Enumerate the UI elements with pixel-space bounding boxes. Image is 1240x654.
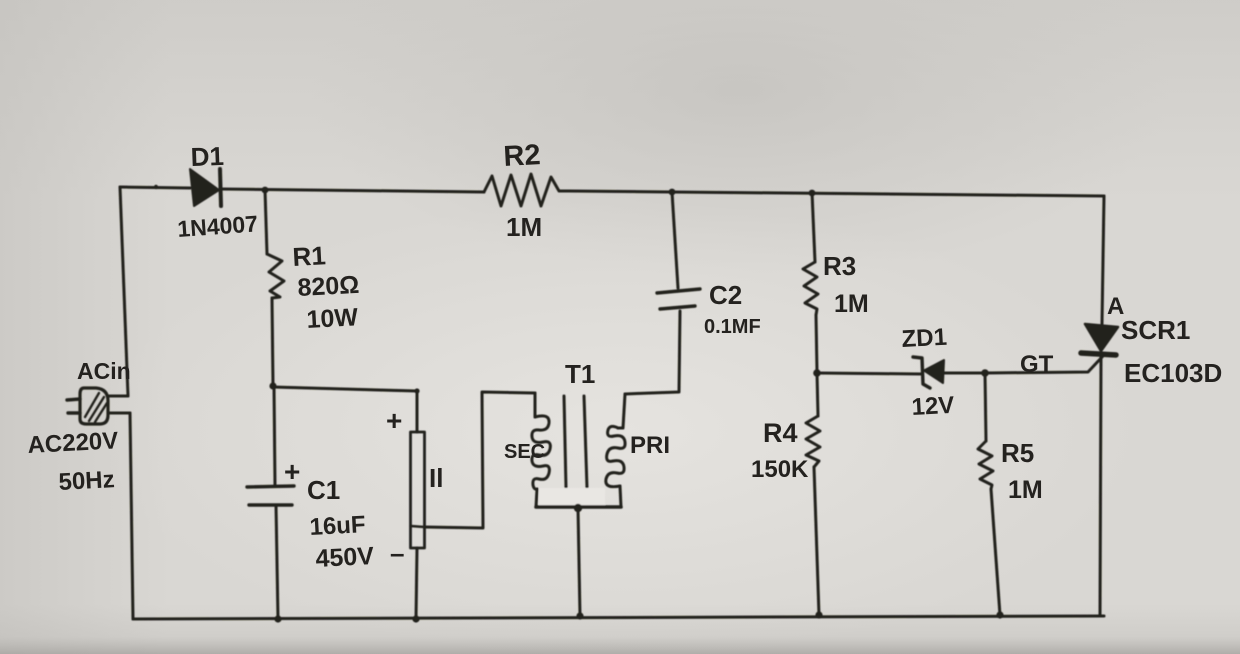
transformer T1 center tap	[574, 504, 582, 616]
label C1	[307, 475, 340, 505]
svg-text:Il: Il	[429, 463, 443, 493]
svg-text:R3: R3	[823, 251, 856, 281]
svg-text:R2: R2	[503, 139, 542, 173]
resistor R2	[484, 174, 569, 206]
wire D1 to R2	[221, 189, 484, 192]
transformer T1 core	[564, 396, 587, 488]
svg-text:ACin: ACin	[77, 358, 131, 384]
label SEC	[504, 441, 545, 463]
resistor R4	[806, 373, 820, 615]
capacitor C2	[657, 192, 700, 309]
svg-text:T1: T1	[565, 359, 595, 389]
label 820ohm	[297, 271, 360, 302]
node junction at R3 top	[809, 190, 816, 197]
igniter Z1	[411, 391, 425, 619]
label plus C1	[284, 456, 300, 487]
label 1M R3	[834, 290, 869, 318]
node junction Z1 bottom	[412, 615, 419, 622]
thyristor SCR1	[1081, 324, 1118, 355]
diode D1	[190, 169, 221, 206]
svg-text:1M: 1M	[1008, 476, 1043, 504]
svg-text:12V: 12V	[911, 392, 955, 421]
svg-text:R1: R1	[292, 240, 327, 272]
resistor R1	[265, 190, 284, 385]
svg-text:1M: 1M	[506, 212, 542, 242]
node junction at C2 top	[669, 189, 676, 196]
label R2	[503, 139, 542, 173]
svg-text:SEC: SEC	[504, 441, 545, 463]
node junction C1 bottom	[274, 615, 281, 622]
wire right vertical anode	[1102, 196, 1104, 324]
label 1M R2	[506, 212, 542, 242]
wire left vertical upper	[120, 187, 128, 396]
resistor R5	[978, 373, 1000, 615]
label 0.1MF	[704, 316, 761, 338]
svg-text:50Hz: 50Hz	[58, 466, 115, 496]
wire right vertical cathode	[1100, 356, 1101, 616]
svg-text:820Ω: 820Ω	[297, 271, 360, 302]
svg-text:ZD1: ZD1	[901, 324, 948, 353]
label R5	[1001, 438, 1034, 468]
label T1	[565, 359, 595, 389]
label EC103D	[1124, 358, 1222, 388]
wire node to ZI top	[273, 387, 417, 391]
svg-text:C1: C1	[307, 475, 340, 505]
wire gate GT	[985, 356, 1103, 373]
label SCR1	[1121, 315, 1190, 345]
node junction T1 tap bottom	[576, 612, 583, 619]
label R4	[763, 418, 798, 448]
svg-text:150K: 150K	[751, 456, 809, 483]
svg-text:0.1MF: 0.1MF	[704, 316, 761, 338]
AC plug ACin	[67, 388, 108, 424]
capacitor C1	[247, 386, 294, 619]
label ACin	[77, 358, 131, 384]
transformer T1 bottom bar	[536, 505, 621, 509]
label 450V	[315, 542, 375, 573]
label 12V	[911, 392, 955, 421]
wire plug top stub	[108, 395, 128, 398]
label ZD1	[901, 324, 948, 353]
zener diode ZD1	[913, 357, 944, 388]
node junction R4 bottom	[815, 611, 822, 618]
svg-text:450V: 450V	[315, 542, 375, 573]
transformer T1 secondary winding SEC	[532, 393, 550, 507]
label 16uF	[309, 511, 366, 541]
wire PRI top to C2	[625, 311, 680, 394]
label 150K	[751, 456, 809, 483]
svg-text:C2: C2	[709, 280, 742, 310]
svg-text:–: –	[390, 538, 404, 568]
label 1N4007	[177, 210, 259, 242]
label GT	[1020, 351, 1054, 378]
wire left vertical lower	[130, 413, 133, 619]
svg-text:AC220V: AC220V	[27, 427, 119, 459]
label R3	[823, 251, 856, 281]
svg-text:D1: D1	[190, 141, 224, 172]
label R1	[292, 240, 327, 272]
node small dot at ZI stub	[414, 388, 419, 393]
label 10W	[306, 303, 359, 334]
wire ZD1 to gate node	[944, 372, 985, 375]
label PRI	[630, 432, 670, 459]
svg-text:GT: GT	[1020, 351, 1054, 378]
svg-text:16uF: 16uF	[309, 511, 366, 541]
node junction at R1 top	[262, 187, 269, 194]
node junction ZD1/R5/gate	[981, 369, 989, 377]
wire Z1 to SEC	[425, 392, 536, 528]
svg-text:1M: 1M	[834, 290, 869, 318]
node junction R5 bottom	[996, 611, 1003, 618]
resistor R3	[803, 192, 818, 372]
transformer T1 primary winding PRI	[606, 394, 625, 507]
svg-text:PRI: PRI	[630, 432, 670, 459]
stray tick on top rail	[154, 185, 158, 189]
wire node to ZD1	[817, 373, 922, 374]
label Z1 value	[429, 463, 443, 493]
label D1	[190, 141, 224, 172]
wire R2 to top-right corner	[569, 191, 1104, 196]
svg-text:10W: 10W	[306, 303, 359, 334]
label A anode	[1107, 293, 1124, 320]
label plus Z1	[386, 405, 402, 436]
node junction R1 bottom / C1 top	[269, 382, 276, 389]
svg-text:R5: R5	[1001, 438, 1034, 468]
svg-text:R4: R4	[763, 418, 798, 448]
label C2	[709, 280, 742, 310]
label AC220V	[27, 427, 119, 459]
node junction R3/R4/ZD1	[813, 369, 821, 377]
svg-text:+: +	[386, 405, 402, 436]
white-out patch	[539, 488, 605, 506]
label 1M R5	[1008, 476, 1043, 504]
svg-text:EC103D: EC103D	[1124, 358, 1222, 388]
svg-text:+: +	[284, 456, 300, 487]
wire plug bottom stub	[108, 412, 130, 415]
label minus C1	[390, 538, 404, 568]
wire top rail left segment	[120, 187, 190, 188]
wire bottom rail	[133, 616, 1104, 619]
label 50Hz	[58, 466, 115, 496]
svg-text:SCR1: SCR1	[1121, 315, 1190, 345]
